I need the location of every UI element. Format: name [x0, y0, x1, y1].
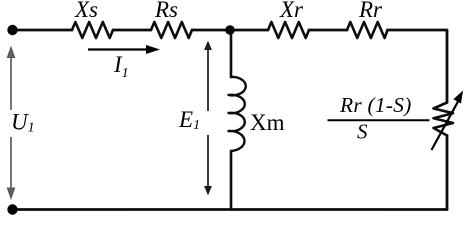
svg-text:U1: U1 [11, 110, 35, 136]
svg-text:Rs: Rs [154, 0, 178, 22]
wire top segment 4 [230, 29, 268, 32]
svg-text:Xm: Xm [250, 110, 285, 135]
wire Xm branch lower [230, 151, 233, 210]
resistor Rr (zigzag) [347, 22, 388, 38]
wire top segment 2 [113, 29, 151, 32]
wire Xm branch upper [230, 30, 233, 77]
wire top segment 1 [13, 29, 73, 32]
wire bottom [13, 208, 448, 211]
voltage arrow E1 (double-headed) [204, 41, 212, 196]
current arrow I1 [88, 45, 160, 54]
inductor Xm coil [229, 77, 246, 151]
variable resistor Rr(1-S)/S (vertical zigzag) [434, 103, 454, 136]
wire top segment 5 [309, 29, 347, 32]
arrow through variable resistor [432, 91, 464, 151]
wire right lower segment [446, 136, 449, 210]
svg-text:Rr: Rr [358, 0, 383, 22]
reactance Xr (zigzag) [268, 22, 309, 38]
svg-text:Xs: Xs [74, 0, 98, 22]
wire top segment 6 with right corner [388, 30, 448, 103]
reactance Xs (zigzag) [72, 22, 113, 38]
svg-text:E1: E1 [178, 107, 200, 133]
node junction dot [225, 25, 235, 35]
svg-text:Xr: Xr [279, 0, 304, 22]
terminal dot bottom-left [7, 204, 17, 214]
svg-text:Rr (1-S): Rr (1-S) [339, 93, 411, 117]
resistor Rs (zigzag) [151, 22, 192, 38]
terminal dot top-left [7, 25, 17, 35]
svg-text:I1: I1 [113, 52, 129, 81]
svg-text:S: S [357, 120, 368, 144]
wire top segment 3 [192, 29, 230, 32]
fraction bar [328, 119, 430, 121]
voltage arrow U1 (double-headed, gray) [7, 46, 16, 201]
